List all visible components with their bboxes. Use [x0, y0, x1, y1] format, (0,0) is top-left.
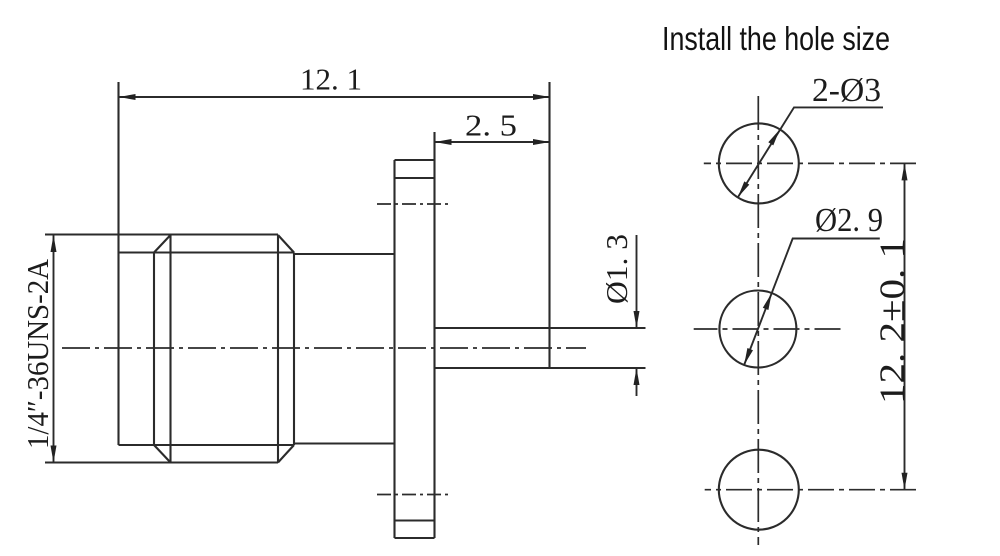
hex band top edge with thread dim extension: [45, 233, 278, 235]
dimension 2.5 line: [435, 139, 551, 145]
middle hole circle: [719, 291, 796, 368]
top hole circle: [719, 123, 799, 203]
svg-text:Install the hole size: Install the hole size: [662, 20, 890, 57]
center pin bottom edge with extension: [435, 367, 646, 369]
hex chamfer bottom-left: [154, 445, 171, 463]
hole pattern vertical centerline: [757, 96, 759, 545]
hex flats bottom edge: [119, 444, 295, 446]
dimension pin diameter 1.3 line: [634, 235, 640, 396]
hex chamfer bottom-right: [278, 445, 294, 463]
center pin top edge with extension: [435, 327, 646, 329]
svg-text:12. 2±0. 1: 12. 2±0. 1: [872, 238, 912, 404]
flange top edge: [395, 159, 435, 161]
flange bottom edge: [395, 537, 435, 539]
flange upper hole centerline: [377, 203, 452, 205]
middle hole centerline: [694, 328, 841, 330]
bottom hole circle: [719, 450, 799, 530]
flange right face with 2.5 extension: [433, 132, 435, 538]
sleeve top edge: [294, 253, 395, 255]
leader 2-diameter-3: [738, 107, 883, 197]
hex nut flat inner edge: [153, 253, 155, 446]
dimension 12.2 line: [902, 163, 908, 489]
flange left face: [393, 160, 395, 538]
bottom hole centerline: [705, 489, 916, 491]
flange upper corner line: [395, 177, 435, 179]
svg-text:2-Ø3: 2-Ø3: [812, 72, 881, 109]
svg-text:Ø1. 3: Ø1. 3: [599, 234, 634, 304]
hex corner band right edge: [277, 235, 279, 463]
svg-text:Ø2. 9: Ø2. 9: [815, 202, 883, 239]
hex chamfer top-left: [154, 235, 171, 253]
top hole centerline: [704, 162, 916, 164]
svg-text:1/4″-36UNS-2A: 1/4″-36UNS-2A: [20, 258, 55, 449]
hex nut right face: [293, 253, 295, 446]
main axis centerline: [62, 347, 586, 349]
svg-text:12. 1: 12. 1: [300, 62, 362, 97]
hex chamfer top-right: [278, 235, 294, 253]
svg-text:2. 5: 2. 5: [465, 108, 517, 143]
sleeve bottom edge: [294, 442, 395, 444]
thread dimension line 1/4-36UNS-2A: [51, 235, 57, 463]
pin tip line and right extension of 12.1: [548, 82, 550, 368]
flange lower hole centerline: [377, 494, 450, 496]
hex flats top edge: [119, 251, 295, 253]
leader diameter-2.9: [744, 239, 880, 366]
dimension 12.1 line: [119, 94, 551, 100]
hex band bottom edge with thread dim extension: [45, 461, 278, 463]
flange lower corner line: [395, 519, 435, 521]
left extension line of 12.1 and hex left face: [117, 82, 119, 445]
hex corner band left edge: [169, 235, 171, 463]
